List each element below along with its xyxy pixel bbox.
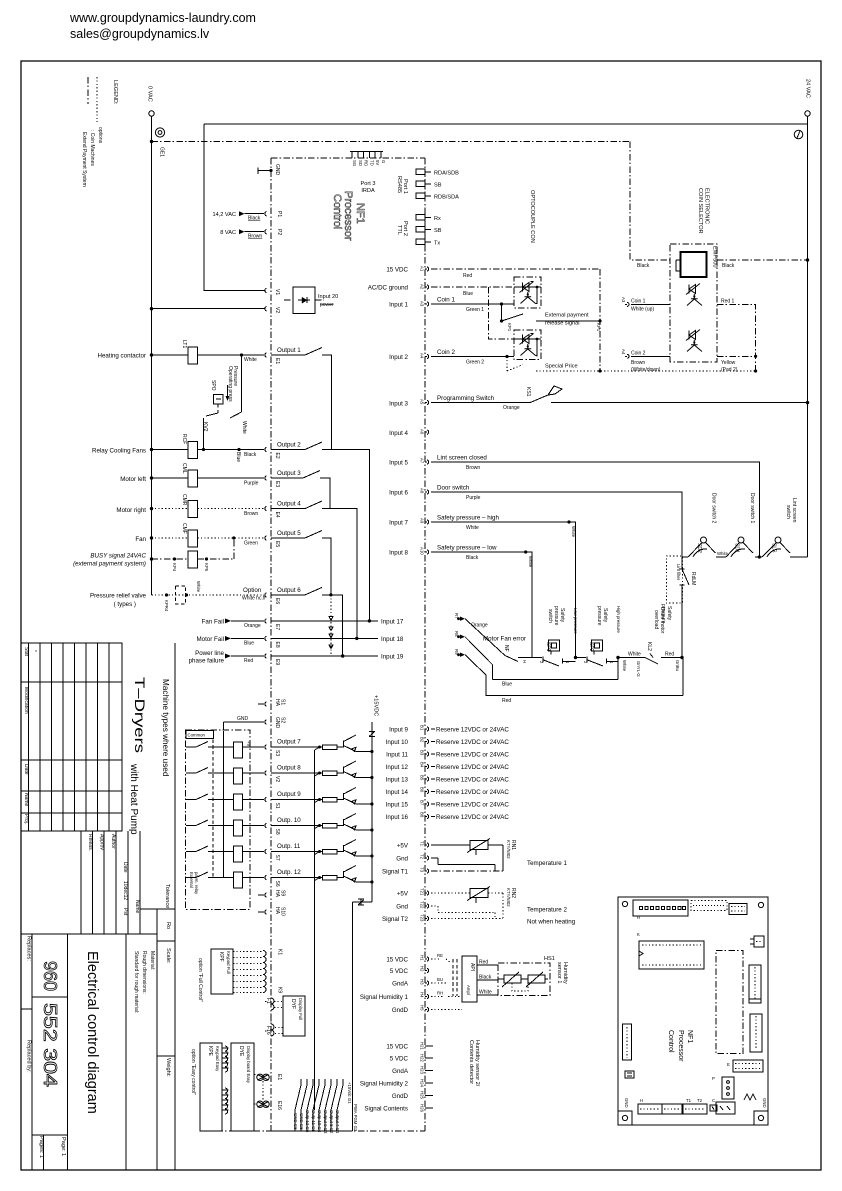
svg-text:Replaced by:: Replaced by:: [26, 1040, 32, 1073]
svg-text:HA: HA: [274, 907, 280, 915]
svg-text:Orange: Orange: [503, 405, 520, 411]
svg-text:Door switch 2: Door switch 2: [711, 493, 717, 524]
svg-text:Contents detector: Contents detector: [468, 1040, 474, 1084]
wire output2 to vertical input17: [322, 450, 369, 621]
wire 24VAC top feed: [204, 123, 808, 125]
SPO arrow: [227, 385, 229, 398]
svg-text:B5: B5: [420, 775, 425, 781]
svg-text:High pressure: High pressure: [616, 606, 621, 633]
svg-text:8 VAC: 8 VAC: [220, 230, 236, 236]
svg-text:SB: SB: [434, 183, 442, 189]
svg-text:S2: S2: [280, 717, 286, 723]
rail bottom jog with diode: [353, 902, 372, 1131]
pin E6: [265, 593, 267, 597]
node GE1 junction: [150, 140, 153, 143]
svg-text:KP1: KP1: [507, 323, 512, 332]
svg-text:RE: RE: [437, 953, 443, 958]
svg-text:K9: K9: [276, 987, 282, 993]
svg-text:A2: A2: [420, 284, 425, 290]
svg-text:External payment: External payment: [545, 313, 589, 319]
svg-text:Input 12: Input 12: [386, 764, 409, 771]
svg-text:Output 9 G3: Output 9 G3: [323, 1110, 328, 1134]
pin A4: [425, 354, 429, 358]
svg-text:phase failure: phase failure: [189, 658, 225, 665]
svg-text:Input 17: Input 17: [381, 619, 404, 626]
wire chain to corner: [664, 657, 682, 659]
switch SLS lint screen: [775, 537, 781, 543]
arrow motor fail: [225, 636, 231, 641]
svg-text:DYE: DYE: [238, 1046, 244, 1057]
svg-text:Tolerance: Tolerance: [164, 884, 170, 908]
pin E1: [265, 353, 267, 357]
wire RCF to pin: [198, 449, 265, 451]
wire input19 row: [271, 655, 378, 657]
switch KV2: [206, 412, 242, 418]
svg-text:A4: A4: [621, 349, 626, 355]
SPO pressure block wire: [241, 355, 243, 412]
title block: revision table row lines: [29, 643, 110, 831]
svg-text:Proj.: Proj.: [23, 814, 29, 824]
node input7 drop joins chain: [574, 656, 577, 659]
svg-text:KPR4: KPR4: [164, 600, 169, 612]
svg-text:5V: 5V: [375, 160, 380, 165]
svg-text:0 VAC: 0 VAC: [147, 86, 153, 102]
svg-text:Reserve 12VDC or 24VAC: Reserve 12VDC or 24VAC: [436, 727, 509, 734]
coin mech inner box: [681, 252, 707, 277]
KPE-DYE link coils group1: [225, 1046, 228, 1072]
svg-text:Red: Red: [244, 658, 253, 664]
legend dotted sample line: [96, 77, 98, 122]
svg-text:Tx: Tx: [434, 241, 440, 247]
wire CMF to pin dotted: [198, 537, 265, 539]
port1 pin boxes: [416, 169, 425, 175]
svg-text:+5V: +5V: [397, 891, 409, 898]
machine area right edge: [174, 643, 176, 1170]
svg-text:AC/DC ground: AC/DC ground: [368, 285, 409, 292]
svg-text:Input 13: Input 13: [386, 777, 409, 784]
svg-text:5 VDC: 5 VDC: [390, 1056, 409, 1063]
base resistors: [323, 745, 338, 750]
svg-text:Red: Red: [479, 960, 488, 966]
svg-text:H: H: [640, 1098, 643, 1103]
svg-text:Blue: Blue: [502, 682, 512, 688]
wire input18 row: [271, 637, 378, 639]
sensor elements: [504, 975, 521, 983]
PCB top connector 3: [729, 904, 747, 915]
switch output6: [271, 587, 322, 595]
machine column divider: [121, 643, 123, 831]
wire R8 slant to blue: [465, 637, 493, 680]
svg-text:E3: E3: [274, 481, 280, 487]
wire CMR to pin dotted: [198, 508, 265, 510]
pin E2: [265, 447, 267, 451]
svg-text:Yellow: Yellow: [721, 360, 736, 366]
svg-text:Input 10: Input 10: [386, 739, 409, 746]
svg-text:API: API: [469, 963, 475, 971]
title block: revision table column lines: [21, 682, 122, 813]
wire safety pressure high: [431, 522, 576, 658]
svg-text:Motor right: Motor right: [116, 507, 146, 514]
keypad KPE box: [200, 1043, 222, 1131]
24 VAC terminal circle: [805, 111, 810, 116]
pin A9: [425, 520, 429, 524]
svg-text:Input 2: Input 2: [389, 354, 408, 361]
svg-text:Lint screen closed: Lint screen closed: [437, 455, 487, 462]
svg-text:White (up): White (up): [631, 307, 654, 313]
svg-text:Safety pressure – high: Safety pressure – high: [437, 515, 499, 522]
svg-text:SD: SD: [358, 160, 363, 166]
svg-text:15 VDC: 15 VDC: [386, 957, 408, 964]
wire coin1 into selector: [631, 303, 670, 305]
svg-text:SP2: SP2: [588, 642, 594, 652]
svg-text:960: 960: [40, 961, 60, 991]
PCB IC U1: [639, 941, 704, 969]
svg-text:Red 1: Red 1: [721, 299, 735, 305]
wire coin1: [431, 303, 514, 305]
relay contact outp11: [186, 846, 216, 852]
amp outputs: [477, 964, 498, 966]
svg-text:H: H: [637, 915, 640, 920]
switch SD2 door switch 2: [701, 537, 707, 543]
wire transformer feed down to V1: [204, 124, 265, 290]
svg-text:Black: Black: [248, 216, 261, 222]
PCB corner hole boxes: [622, 901, 627, 906]
wire output6 to input19 vertical: [322, 595, 343, 656]
switch output1: [271, 348, 322, 356]
svg-text:T23: T23: [420, 914, 425, 922]
svg-text:(White/down): (White/down): [631, 367, 661, 373]
svg-text:Keypad Easy: Keypad Easy: [215, 1046, 220, 1072]
dotted link box: [453, 959, 457, 996]
svg-text:IRDA: IRDA: [361, 188, 375, 194]
pin A5: [425, 400, 429, 404]
svg-text:Input 1: Input 1: [389, 302, 408, 309]
svg-text:Not when heating: Not when heating: [527, 919, 576, 926]
wire chain segment SD2-SD1: [716, 556, 726, 558]
svg-text:Outp. 11: Outp. 11: [277, 843, 301, 850]
wire 15VDC red: [431, 268, 600, 270]
svg-text:H1: H1: [420, 955, 425, 961]
svg-text:Green 2: Green 2: [466, 360, 484, 366]
svg-text:DYF: DYF: [290, 999, 296, 1009]
svg-text:Output 3: Output 3: [277, 470, 301, 477]
svg-text:Input 11: Input 11: [386, 752, 408, 759]
pin E3: [265, 476, 267, 480]
svg-text:Electrical control diagram: Electrical control diagram: [84, 951, 100, 1114]
svg-text:Input 6: Input 6: [389, 490, 408, 497]
svg-text:pressure: pressure: [596, 606, 602, 626]
wire RCF row: [152, 449, 189, 451]
relay contact output7: [186, 742, 216, 748]
left driver bus: [314, 750, 316, 1110]
svg-text:Coin 2: Coin 2: [631, 351, 646, 357]
svg-text:A5: A5: [420, 399, 425, 405]
PCB tiny connector: [710, 1105, 717, 1111]
diode chain on internal bus: [329, 617, 333, 621]
svg-text:Temperature 1: Temperature 1: [527, 860, 567, 867]
wire motor right row dotted: [152, 508, 189, 510]
node RCF junction: [150, 448, 153, 451]
svg-text:Relay Cooling Fans: Relay Cooling Fans: [92, 448, 146, 455]
wire 24VAC drop: [807, 116, 809, 124]
svg-text:Output 7: Output 7: [277, 739, 301, 746]
svg-text:RD: RD: [364, 160, 369, 166]
pin E4: [265, 506, 267, 510]
wire door switch: [431, 492, 682, 557]
svg-text:A4: A4: [420, 353, 425, 359]
svg-text:CMF: CMF: [181, 523, 187, 534]
svg-text:Input 20: Input 20: [318, 294, 338, 300]
svg-text:: Coin Machines: : Coin Machines: [89, 130, 95, 166]
wire fan fail: [231, 620, 264, 622]
svg-text:Door switch: Door switch: [437, 485, 470, 492]
svg-text:power: power: [320, 302, 334, 308]
svg-text:S6: S6: [274, 881, 280, 887]
svg-text:H3: H3: [420, 979, 425, 985]
wire blue: [493, 658, 618, 680]
svg-text:Output 1: Output 1: [277, 347, 301, 354]
svg-text:ELECTRONIC: ELECTRONIC: [704, 188, 710, 224]
svg-text:SD2: SD2: [696, 543, 702, 553]
pin A10: [425, 550, 429, 554]
PCB left connector: [623, 1024, 632, 1060]
switch output3: [271, 471, 320, 479]
svg-text:E8: E8: [274, 642, 280, 648]
wire to P2: [245, 231, 265, 233]
svg-text:release signal: release signal: [545, 321, 580, 327]
svg-text:T1: T1: [686, 1098, 692, 1103]
port pin stubs: [425, 172, 431, 242]
svg-text:Input 9: Input 9: [389, 727, 408, 734]
svg-text:White: White: [196, 581, 201, 593]
svg-text:KPF: KPF: [218, 952, 224, 962]
svg-text:10dec12: 10dec12: [122, 881, 128, 900]
svg-text:Rough dimensions:: Rough dimensions:: [141, 951, 147, 994]
wire output4 to vertical input18: [322, 509, 357, 639]
wire red1 out: [717, 304, 756, 371]
optocoupler 1: [514, 277, 541, 308]
contactor LT1: [188, 347, 198, 364]
svg-text:Keypad Full: Keypad Full: [226, 951, 231, 974]
generator symbol GE1: [155, 128, 164, 137]
switch KL2 drum motor overload: [645, 654, 664, 665]
switch output4: [271, 501, 322, 509]
svg-text:Input 19: Input 19: [381, 654, 404, 661]
wire KV2 to RCF row: [203, 418, 205, 450]
svg-text:A8: A8: [420, 488, 425, 494]
switch RdLM: [682, 557, 689, 591]
svg-text:GndA: GndA: [392, 1068, 409, 1075]
svg-text:Purple: Purple: [466, 495, 481, 501]
wire chain SP1 to SP2: [576, 657, 587, 659]
svg-text:Reserve 12VDC or 24VAC: Reserve 12VDC or 24VAC: [436, 764, 509, 771]
svg-text:Orange: Orange: [471, 623, 488, 629]
svg-text:Rx: Rx: [434, 216, 441, 222]
pin A6: [425, 430, 429, 434]
svg-text:T21: T21: [420, 888, 425, 896]
svg-text:( types ): ( types ): [114, 601, 136, 608]
svg-text:GND: GND: [274, 717, 280, 729]
svg-text:Pages: 1: Pages: 1: [38, 1136, 44, 1158]
pin A1: [425, 267, 429, 271]
svg-text:Output 5: Output 5: [277, 530, 301, 537]
svg-text:SPO: SPO: [210, 380, 216, 391]
svg-text:Input 8: Input 8: [389, 550, 408, 557]
svg-text:HS1: HS1: [544, 956, 555, 962]
svg-text:White: White: [479, 990, 492, 996]
svg-text:PWA PGM G2: PWA PGM G2: [353, 1104, 358, 1132]
svg-text:Modification: Modification: [23, 687, 29, 714]
svg-text:15 VDC: 15 VDC: [386, 267, 408, 274]
svg-text:K: K: [637, 932, 640, 937]
thermistor RN1 loop: [431, 845, 503, 871]
wire coin2: [431, 356, 514, 358]
svg-text:Output 8: Output 8: [277, 765, 301, 772]
svg-text:Input 15: Input 15: [386, 802, 409, 809]
svg-text:CML: CML: [181, 463, 187, 474]
svg-text:sales@groupdynamics.lv: sales@groupdynamics.lv: [70, 27, 210, 41]
svg-text:BU: BU: [437, 977, 443, 982]
wire coin2 into selector: [631, 355, 670, 357]
svg-text:Coin 1: Coin 1: [437, 297, 455, 304]
pin S1 HA: [258, 702, 267, 706]
svg-text:Brown: Brown: [631, 360, 645, 366]
wire to P1: [245, 213, 265, 215]
arrow power line: [225, 654, 231, 659]
svg-text:H22: H22: [420, 1054, 425, 1062]
svg-text:Coin 1: Coin 1: [631, 299, 646, 305]
thermistor RN1 body: [470, 841, 488, 850]
DYE to E pins: [257, 1074, 263, 1080]
switch SD1 door switch 1: [738, 537, 744, 543]
signature cells: [81, 831, 140, 934]
svg-text:Common: Common: [188, 733, 206, 738]
svg-text:Input 5: Input 5: [389, 460, 408, 467]
svg-text:5 VDC: 5 VDC: [390, 968, 409, 975]
svg-text:RDA/SDB: RDA/SDB: [434, 171, 459, 177]
svg-text:15 VDC: 15 VDC: [386, 1044, 408, 1051]
relay RCF: [188, 441, 198, 458]
svg-text:GE1: GE1: [159, 147, 165, 157]
svg-text:E6: E6: [274, 598, 280, 604]
pin E8: [265, 636, 267, 640]
svg-text:Safety pressure – low: Safety pressure – low: [437, 545, 497, 552]
svg-text:Page: 1: Page: 1: [60, 1137, 66, 1156]
svg-text:Purple: Purple: [244, 481, 259, 487]
svg-text:Signal T1: Signal T1: [382, 869, 409, 876]
svg-text:External: External: [189, 872, 194, 888]
pin A7: [425, 460, 429, 464]
svg-text:Reserve 12VDC or 24VAC: Reserve 12VDC or 24VAC: [436, 814, 509, 821]
pin P2: [265, 230, 267, 234]
svg-text:C: C: [712, 1098, 715, 1103]
svg-text:S3: S3: [274, 750, 280, 756]
pin S9 HA: [258, 893, 267, 897]
svg-text:Output 9: Output 9: [277, 791, 301, 798]
common box: [186, 731, 214, 739]
svg-text:GndD: GndD: [392, 1007, 409, 1014]
legend dash-dot sample line: [87, 77, 89, 104]
svg-text:GND: GND: [762, 1098, 767, 1108]
svg-text:Orange: Orange: [244, 623, 261, 629]
svg-text:Stat: Stat: [23, 647, 29, 657]
tolerance cell lines: [140, 909, 175, 1170]
svg-text:KS1: KS1: [525, 387, 531, 397]
svg-text:B3: B3: [420, 750, 425, 756]
pin A2: [425, 285, 429, 289]
wire chain to SP1: [521, 657, 543, 659]
svg-text:RDB/SDA: RDB/SDA: [434, 195, 459, 201]
svg-text:T1: T1: [420, 841, 425, 847]
svg-text:Low pressure: Low pressure: [573, 608, 578, 634]
svg-text:Outp. 10: Outp. 10: [277, 817, 301, 824]
bottom option bus dash-dot: [204, 1130, 271, 1132]
wire motor left row: [152, 477, 189, 479]
svg-text:RdLM: RdLM: [690, 572, 696, 585]
svg-text:Outp. 12: Outp. 12: [277, 869, 301, 876]
node input19 junction: [341, 654, 344, 657]
svg-text:Brown: Brown: [466, 465, 480, 471]
svg-text:Input 4: Input 4: [389, 430, 408, 437]
phase symbol: [794, 130, 803, 139]
svg-text:Motor Fail: Motor Fail: [196, 636, 224, 643]
optocoupler 2: [514, 330, 541, 360]
svg-text:options: options: [97, 127, 103, 144]
svg-text:Display Full: Display Full: [298, 998, 303, 1020]
svg-text:Green 1: Green 1: [466, 307, 484, 313]
svg-text:GndA: GndA: [392, 981, 409, 988]
contactor CMF: [188, 530, 198, 547]
svg-text:Reserve 12VDC or 24VAC: Reserve 12VDC or 24VAC: [436, 739, 509, 746]
svg-text:Black: Black: [479, 975, 492, 981]
svg-text:Machine types where used: Machine types where used: [161, 679, 170, 777]
svg-text:Signal T2: Signal T2: [382, 916, 409, 923]
svg-text:overload: overload: [653, 610, 659, 629]
svg-text:Name: Name: [134, 900, 140, 914]
svg-text:+15VDC: +15VDC: [373, 695, 379, 716]
humidity sensor HS1 box: [498, 963, 550, 996]
svg-text:with Heat Pump: with Heat Pump: [128, 763, 139, 835]
svg-text:TTL: TTL: [396, 225, 402, 235]
svg-text:Signal Humidity 2: Signal Humidity 2: [360, 1081, 409, 1088]
svg-text:H2: H2: [420, 966, 425, 972]
pin E5: [265, 536, 267, 540]
svg-text:TD: TD: [369, 160, 374, 166]
wire output5 to output6: [322, 538, 331, 595]
svg-text:Name: Name: [23, 793, 29, 807]
svg-text:KL2: KL2: [646, 642, 652, 651]
wire heating row: [152, 354, 189, 356]
svg-text:BUSY signal 24VAC: BUSY signal 24VAC: [90, 553, 146, 560]
node input17 junction: [368, 619, 371, 622]
svg-text:EMP500: EMP500: [712, 246, 718, 267]
svg-text:NF1: NF1: [354, 203, 366, 224]
svg-text:Black: Black: [722, 263, 735, 269]
svg-text:Gnd: Gnd: [396, 904, 408, 911]
svg-text:Fan: Fan: [135, 536, 146, 543]
wire GE1 dash-dot to coin selector: [152, 141, 631, 143]
svg-text:Ro: Ro: [165, 922, 171, 929]
svg-text:S8: S8: [274, 829, 280, 835]
PCB top connector 1: [633, 900, 688, 916]
wire LT1 to pin E1: [198, 354, 265, 356]
svg-text:Control: Control: [331, 194, 343, 229]
svg-text:Date: Date: [122, 862, 128, 873]
svg-text:KPE: KPE: [207, 1046, 213, 1057]
svg-text:Output 6: Output 6: [277, 587, 301, 594]
svg-text:LEGEND:: LEGEND:: [112, 80, 118, 105]
svg-text:E5: E5: [274, 541, 280, 547]
